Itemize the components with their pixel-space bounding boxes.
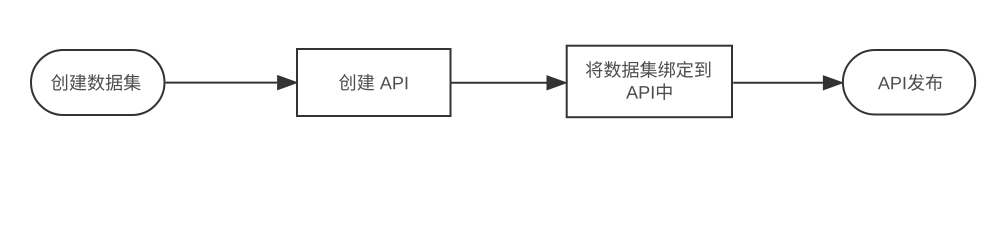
label line1 将数据集绑定到 <box>586 61 710 78</box>
process 将数据集绑定到API中 <box>567 46 732 118</box>
terminator API发布 <box>843 50 975 115</box>
wire arrow3 <box>733 82 823 84</box>
process 创建API <box>297 49 451 116</box>
arrowhead2 <box>548 77 566 90</box>
label 创建 API <box>339 74 407 91</box>
label 创建数据集 <box>51 74 140 91</box>
arrowhead1 <box>278 76 296 89</box>
arrowhead3 <box>824 77 842 90</box>
wire arrow1 <box>166 82 278 84</box>
label API发布 <box>878 74 942 91</box>
wire arrow2 <box>452 82 547 84</box>
label line2 API中 <box>626 83 671 100</box>
terminator 创建数据集 <box>31 50 165 115</box>
